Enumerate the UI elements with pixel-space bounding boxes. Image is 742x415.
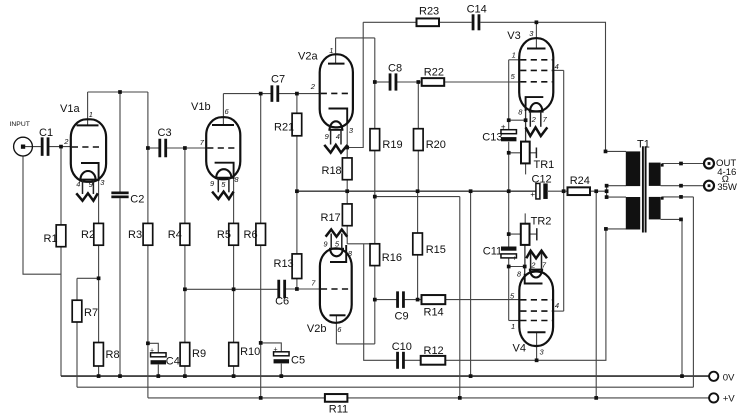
V4 envelope [519,272,553,347]
wire: C9 row from V2b anode node [375,299,397,301]
wire: R24 node down to +V rail [595,191,597,398]
junction TR2 wiper C11 [507,232,511,236]
svg-text:R16: R16 [382,252,402,264]
wire: R20 column from C8/R22 junction [417,82,419,129]
svg-text:R11: R11 [329,404,348,415]
svg-text:R6: R6 [244,229,258,241]
svg-text:C2: C2 [130,194,144,206]
wire: C6 to R13 junction and V2b grid pin 7 [285,288,321,290]
wire: R3 column upper (anode supply) [147,92,149,223]
wire: R15 top from main bias row [417,191,419,233]
wire: secondary tap to second OUT terminal [661,185,704,187]
svg-text:C12: C12 [532,173,552,185]
junction C8 right R22 [416,80,420,84]
capacitor C10 [396,352,399,369]
wire: secondary top to OUT terminal [662,164,704,167]
wire: R18 bottom through main row to R17 [346,180,348,204]
junction secondary out tap 1 [679,162,683,166]
wire: junction across to R7 [77,277,99,279]
capacitor C7 [271,85,274,102]
wire: C3 to V1b grid node [166,147,185,149]
resistor R12 [421,356,446,365]
resistor R20 [414,129,424,151]
V1b cathode [215,163,234,179]
wire: R4/R9 column to R9 [184,289,186,342]
junction R19 bottom +V link [373,195,377,199]
junction secondary out tap 2 [679,184,683,188]
svg-text:V2b: V2b [307,323,327,335]
resistor R15 [413,233,423,255]
junction secondary feedback tap [679,195,683,199]
wire: main bias row (left of C12) [297,190,536,192]
junction R9 cathode-bias row [183,287,187,291]
triode V1a [63,110,106,201]
junction R6 +V rail [259,396,263,400]
svg-text:V2a: V2a [298,51,318,63]
wire: C8 to R22 junction [397,81,422,83]
wire: R8 bottom to ground bus [98,366,100,376]
svg-text:C11: C11 [483,245,502,257]
junction screen column main row [562,189,566,193]
wire: R2 bottom to junction [98,245,100,278]
wire: V1a cathode pin 3 down to R2 [98,163,100,223]
resistor R4 [180,223,190,245]
junction V3 cathode lead [524,118,528,122]
V1b anode plate [212,124,234,126]
V4 cathode [525,274,543,284]
svg-text:1: 1 [329,46,333,55]
wire: R16 bottom to C9 row [374,266,376,300]
wire: feedback row from R7 to transformer secondary [77,386,693,388]
svg-text:R3: R3 [128,229,142,241]
svg-text:C6: C6 [275,296,289,308]
wire: C11 bottom to V4 cathode row [508,258,510,320]
junction R15 bottom C9 row [416,298,420,302]
V3 screen grid g2 (dashed) [520,69,552,71]
V4 heater [530,270,542,278]
wire: V2b cathode row to R16 top [347,243,375,245]
wire: C5 branch from R6 column [261,343,282,352]
resistor R19 [370,129,380,151]
V1a envelope [71,119,106,182]
svg-text:R15: R15 [426,244,446,256]
V1a grid (dashed) [72,146,101,148]
wire: R23 elbow column down to V2a cathode stub [347,22,363,147]
wire: V2b cathode tee down to C10 elbow [364,244,397,360]
resistor R17 [342,204,352,226]
junction C5 ground [279,374,283,378]
V1b grid (dashed) [207,147,236,149]
junction centre-tap middle [605,189,609,193]
wire: V1b anode pin 6 up to C7 row [222,94,224,125]
svg-text:C13: C13 [482,131,502,143]
V2b cathode [330,245,346,262]
resistor R8 [94,343,104,367]
wire: C1 to V1a grid pin 2 (node A) [49,146,71,148]
svg-text:2: 2 [530,260,536,269]
svg-text:35W: 35W [717,182,738,193]
svg-text:R23: R23 [419,6,439,18]
svg-text:+: + [150,347,154,354]
wire: V1a anode pin 1 up [87,92,89,125]
wire: V3 g3 pin 1 stub [509,59,520,61]
resistor R3 [143,223,153,245]
wire: centre-tap stub to lower primary [607,196,626,198]
wire: primary top stub [606,150,627,152]
junction R21 main row [295,189,299,193]
svg-text:1: 1 [89,110,93,119]
wire: R23 to C14 [439,21,472,23]
junction R6 top on C7 row [259,92,263,96]
wire: C4 bottom to ground bus [157,365,159,377]
wire: C7 row left segment [223,93,271,95]
capacitor C12 [536,183,540,199]
svg-text:R9: R9 [192,348,206,360]
capacitor C11 [501,247,517,251]
wire: C9 to R15/R14 junction [404,299,421,301]
svg-text:R5: R5 [217,229,231,241]
svg-text:INPUT: INPUT [10,121,30,128]
wire: down to R7 top [76,278,78,300]
wire: R19 bottom +V link across [375,196,460,198]
capacitor C4 [151,353,167,357]
wire: R10 bottom to ground bus [233,366,235,376]
svg-text:4: 4 [336,132,340,141]
capacitor C5 [274,352,290,356]
resistor R10 [229,343,239,367]
wire: V3 anode pin 3 lead [535,22,537,48]
wire: R5/R10 column to R10 top [233,289,235,342]
wire: V2a anode over to C8 column [336,37,375,39]
wire: R3 column lower to +V rail elbow [147,245,149,398]
svg-text:R19: R19 [382,139,402,151]
junction R10 ground [232,374,236,378]
wire: TR1 wiper tap bar [535,148,537,159]
wire: R21 bottom to main bias row [296,136,298,254]
T1 core [642,146,644,232]
svg-text:V4: V4 [513,343,526,355]
capacitor C2 [111,192,128,195]
svg-text:R13: R13 [274,258,294,270]
junction R21 top [295,92,299,96]
svg-text:TR1: TR1 [534,159,555,171]
wire: R20 bottom to main bias row [417,151,419,192]
svg-text:2: 2 [63,137,69,146]
junction secondary bottom tap [679,218,683,222]
svg-text:2: 2 [531,115,537,124]
wire: TR1 bottom stub [525,163,527,174]
output pentode V4 (inverted) [510,251,559,357]
resistor R24 [568,187,591,195]
wire: input jack to C1 [23,146,41,148]
wire: C10 to R12 [404,359,421,361]
V3 suppressor grid g3 (dashed) [520,59,552,61]
junction secondary corner lower [661,197,664,200]
input connector [14,137,33,156]
svg-text:C1: C1 [39,127,53,139]
junction V3 pin 3 top [535,20,539,24]
capacitor C3 [158,139,161,158]
svg-text:C4: C4 [166,356,180,368]
resistor R22 [422,78,445,86]
resistor R5 [229,223,239,245]
wire: TR2 wiper tap bar [536,228,538,240]
junction +V rail R19 link [458,396,462,400]
wire: V3 cathode row to C13 [509,119,526,121]
wire: V2b anode up to C9 row [374,300,376,344]
wire: R8 top from junction [98,278,100,342]
junction R18 main row [345,189,349,193]
triode V1b [200,107,240,199]
junction V2b anode C9 row [373,298,377,302]
wire: R24 to centre-tap cluster [590,190,607,192]
wire: V1a anode row to R3 column [88,91,148,93]
svg-text:R24: R24 [570,175,590,187]
wire: R14 to V4 grid pin 5 [445,299,519,301]
wire: V2b anode across [336,343,374,345]
resistor R18 [342,158,352,180]
wire: V3 screen pin 4 stub [553,69,563,71]
resistor R7 [72,300,82,322]
wire: C2 column lower to ground bus [119,198,121,376]
junction R2 bottom [97,276,101,280]
wire: secondary bottom down to 0V rail [661,219,682,376]
V1a cathode [81,163,99,181]
wire: input jack ground down and across to R1 column [23,156,61,274]
junction primary bottom [604,227,608,231]
resistor R11 [325,394,348,402]
svg-text:R1: R1 [44,233,58,245]
svg-text:C7: C7 [271,73,285,85]
svg-text:V1b: V1b [191,101,211,113]
svg-text:R18: R18 [322,165,342,177]
junction V4 anode row [535,358,539,362]
wire: V4 cathode row [509,266,525,268]
V4 anode plate [528,331,546,333]
V1a heater [80,171,95,180]
resistor R2 [94,223,104,245]
wire: R6 bottom down to +V rail [260,245,262,398]
wire: main bias row C12 to R24 [548,190,568,192]
wire: R1 bottom to ground bus [60,247,62,376]
wire: C13 bottom to wiper junction and main row [508,142,510,247]
V4 screen grid g2 (dashed) [520,310,552,312]
junction R9 ground [183,374,187,378]
wire: R22 to V3 grid pin 5 [444,81,519,83]
resistor R9 [180,343,190,367]
svg-text:C5: C5 [291,355,305,367]
preset TR1 [521,142,530,164]
wire: TR2 top stub [524,213,526,223]
V2b anode plate [330,314,346,316]
T1 secondary winding lower [649,197,661,220]
wire: R6 column from C7 row [260,94,262,224]
V3 control grid g1 (dashed) [520,81,552,83]
junction +V rail R24 column [594,396,598,400]
V2a cathode [329,109,348,125]
svg-text:C9: C9 [395,310,409,322]
wire: C8 column down to R19 [374,38,376,129]
svg-text:4: 4 [555,62,559,71]
wire: V4 cathode pin 8 up [524,267,526,284]
V1b envelope [206,117,240,179]
resistor R16 [370,244,380,266]
wire: R7 bottom down to feedback row [76,322,78,387]
junction centre-tap upper [605,184,609,188]
junction ground drop main row [469,189,473,193]
junction V2a cathode [345,146,349,150]
svg-text:R2: R2 [81,229,95,241]
wire: V4 screen pin 4 stub [553,310,564,312]
wire: C3 row from R3 column [148,147,159,149]
svg-text:C14: C14 [467,3,487,15]
svg-text:+: + [501,122,506,131]
capacitor C1 [41,137,44,156]
resistor R14 [422,295,446,304]
capacitor C9 [396,291,399,308]
wire: R5 bottom to cathode-bias row [233,245,235,289]
wire: R12 to V4 anode row and transformer primary bottom [445,229,606,360]
T1 secondary winding upper [649,163,661,186]
svg-text:1: 1 [512,51,516,60]
wire: R17 bottom to V2b cathode row [346,226,348,244]
svg-text:R12: R12 [424,345,444,357]
wire: TR2 bottom lead to cathode row [524,245,526,267]
V3 heater [530,103,542,112]
junction R8 ground [97,374,101,378]
svg-text:TR2: TR2 [531,216,552,228]
wire: cathode-bias row to C6 [185,288,278,290]
junction C3 left on R3 column [146,146,150,150]
junction C2 top [118,90,122,94]
terminal 0V [709,372,718,381]
svg-text:+: + [274,347,278,354]
junction V4 cathode C11 [507,265,511,269]
wire: V1b cathode pin 8 down to R5 [233,163,235,224]
V2b envelope [320,248,352,322]
svg-text:+: + [512,256,516,263]
capacitor C8 [389,73,392,90]
capacitor C14 [472,14,475,30]
junction V3 cathode C13 [507,118,511,122]
svg-text:C8: C8 [388,62,402,74]
V1b heater [216,169,231,178]
svg-text:C3: C3 [158,127,172,139]
wire: ground bus (0V rail) [61,375,709,377]
wire: C4 branch from R3 column [148,343,158,353]
wire: +V rail left segment [148,397,325,399]
wire: secondary lower winding top to feedback line [662,197,693,199]
terminal OUT upper [704,159,714,169]
preset TR2 [521,224,530,245]
V2a anode plate [328,63,345,65]
wire: TR2 wiper arm [509,233,537,235]
wire: V2a anode pin 1 up [335,38,337,64]
junction C4 branch [146,341,150,345]
junction secondary 0V [680,374,684,378]
junction R13 bottom C6 [295,287,299,291]
junction centre-tap lower [605,195,609,199]
capacitor C6 [277,280,280,299]
junction ground drop bus [469,374,473,378]
wire: R23 row left segment [363,21,416,23]
capacitor C13 [501,130,517,134]
wire: R4 bottom to cathode-bias row [184,245,186,289]
V2a envelope [320,54,353,127]
svg-text:R20: R20 [426,139,446,151]
junction cathode column main row [507,189,511,193]
svg-text:R17: R17 [321,212,341,224]
svg-text:4: 4 [555,301,559,310]
V1a anode plate [77,124,99,126]
triode V2a [310,46,354,153]
svg-text:T1: T1 [637,139,650,151]
V2a heater [330,121,343,130]
wire: V4 g3 pin 1 stub [509,320,521,322]
wire: feedback row up to secondary winding tap [692,197,694,387]
wire: TR1 wiper arm [509,152,537,154]
svg-text:2: 2 [310,82,316,91]
T1 primary winding upper [626,151,640,186]
V2b grid (dashed) [321,288,349,290]
junction R5/R10 cathode-bias row [232,287,236,291]
svg-text:R7: R7 [84,307,98,319]
svg-text:R4: R4 [168,229,182,241]
wire: transformer centre-tap cluster [606,186,608,197]
resistor R6 [256,223,266,245]
output transformer T1 [626,146,661,232]
svg-text:C10: C10 [392,341,412,353]
resistor R23 [417,18,440,26]
wire: V4 anode pin 3 lead down [536,332,538,360]
V3 cathode [526,97,544,111]
svg-text:R10: R10 [240,346,260,358]
wire: R13 bottom to C6 junction [296,279,298,290]
svg-text:R22: R22 [424,66,444,78]
terminal OUT lower [704,181,714,191]
resistor R1 [56,225,66,247]
wire: node A down to R1 [60,147,62,225]
wire: V2b anode pin 6 down [335,315,337,344]
wire: V1b grid node to envelope pin 7 [185,147,206,149]
wire: screen grid column V3 to V4 [563,70,565,311]
junction primary top [604,150,608,154]
svg-text:R21: R21 [274,121,294,133]
wire: R19 through main row to R16 top [374,151,376,244]
junction C4 ground [156,374,160,378]
junction R24 +V [594,189,598,193]
wire: V2a cathode pin 3 to R18 [346,109,348,158]
wire: C5 bottom to ground bus [280,364,282,377]
wire: C8 row from V2a anode column [375,81,390,83]
wire: primary bottom stub [606,228,626,230]
output pentode V3 [511,29,559,136]
wire: C14 to V3 anode pin 3 and transformer primary top [480,22,605,151]
wire: V3 cathode pin 8 down to TR1 [525,97,527,142]
junction C5 branch [259,341,263,345]
resistor R21 [292,113,302,136]
svg-text:V3: V3 [507,30,520,42]
svg-text:+V: +V [723,393,736,404]
wire: centre-tap stub to upper primary [607,185,626,187]
svg-text:0V: 0V [723,372,735,383]
wire: main row ground drop [470,191,472,376]
svg-text:1: 1 [511,322,515,331]
wire: +V rail right segment (after R11) [347,397,709,399]
junction C2 ground [118,374,122,378]
triode V2b (inverted) [311,230,353,335]
node A (V1a grid / C1 / R1) [59,145,63,149]
